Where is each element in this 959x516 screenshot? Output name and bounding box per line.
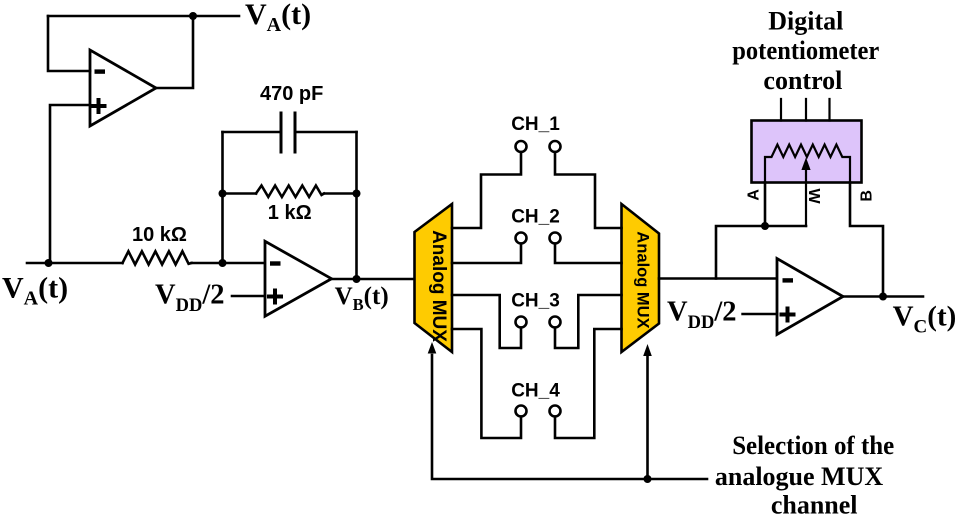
wire CH_2 right bbox=[555, 244, 622, 264]
wire U2 output bbox=[332, 278, 415, 281]
wire pot B terminal bbox=[850, 183, 883, 297]
wire CH_4 right bbox=[555, 329, 622, 438]
wire U1 output bbox=[156, 16, 193, 88]
U3 minus symbol bbox=[783, 278, 794, 282]
node feedback left bbox=[219, 190, 227, 198]
svg-text:analogue MUX: analogue MUX bbox=[715, 462, 884, 491]
svg-text:B: B bbox=[858, 190, 875, 202]
switch CH_3 contacts bbox=[516, 317, 527, 328]
node selection junction bbox=[644, 475, 652, 483]
svg-text:Analog MUX: Analog MUX bbox=[634, 231, 652, 328]
wire U1 feedback top bbox=[48, 15, 239, 18]
wire VA input bbox=[27, 262, 123, 265]
svg-text:potentiometer: potentiometer bbox=[732, 36, 879, 65]
node pot A junction bbox=[761, 222, 769, 230]
wire CH_2 left bbox=[452, 244, 521, 264]
pot wiper arrow bbox=[805, 169, 807, 226]
wire feedback right vertical bbox=[355, 132, 358, 279]
wire feedback left vertical bbox=[221, 132, 224, 263]
svg-text:CH_2: CH_2 bbox=[511, 207, 560, 228]
wire CH_1 left bbox=[452, 152, 521, 228]
U2 plus symbol bbox=[269, 291, 281, 303]
capacitor C1 470pF bbox=[223, 131, 357, 134]
switch CH_1 contacts bbox=[516, 141, 527, 152]
node R1/feedback junction bbox=[219, 259, 227, 267]
wire CH_1 right bbox=[555, 152, 622, 228]
node U3 output junction bbox=[879, 293, 887, 301]
wire CH_4 left bbox=[452, 329, 521, 438]
svg-text:1 kΩ: 1 kΩ bbox=[268, 202, 312, 224]
svg-text:CH_3: CH_3 bbox=[511, 291, 560, 312]
svg-text:Analog MUX: Analog MUX bbox=[428, 230, 449, 342]
op-amp U3 (output) bbox=[777, 259, 843, 335]
wire pot A terminal bbox=[764, 183, 767, 227]
wire R1 to U2 bbox=[192, 262, 266, 265]
U3 plus symbol bbox=[782, 309, 794, 321]
op-amp U2 bbox=[265, 241, 332, 316]
U2 minus symbol bbox=[270, 261, 281, 265]
wire CH_3 left bbox=[452, 295, 521, 348]
node feedback right bbox=[353, 190, 361, 198]
pot control stubs bbox=[781, 99, 830, 121]
wire U1 inverting input bbox=[48, 16, 90, 71]
node A: VA input junction bbox=[45, 259, 53, 267]
wire CH_3 right bbox=[555, 295, 622, 348]
U1 minus input symbol bbox=[95, 69, 106, 73]
svg-text:W: W bbox=[805, 188, 822, 204]
svg-text:Digital: Digital bbox=[768, 7, 843, 36]
svg-text:CH_4: CH_4 bbox=[511, 381, 560, 402]
resistor R2 1k zigzag bbox=[223, 192, 257, 195]
switch CH_4 contacts bbox=[516, 406, 527, 417]
wire U1 non-inverting input bbox=[50, 105, 90, 263]
svg-text:A: A bbox=[745, 189, 762, 201]
arrowhead right MUX select bbox=[643, 344, 652, 356]
U1 plus input symbol bbox=[93, 100, 105, 112]
resistor R1 10k zigzag bbox=[123, 251, 192, 264]
analog MUX left bbox=[415, 204, 453, 352]
svg-text:control: control bbox=[763, 66, 842, 95]
svg-text:10 kΩ: 10 kΩ bbox=[132, 224, 187, 246]
wire VDD/2 to U3 plus bbox=[743, 313, 777, 316]
op-amp U1 (voltage follower, top-left) bbox=[90, 50, 156, 126]
analog MUX right bbox=[622, 204, 660, 352]
svg-text:Selection of the: Selection of the bbox=[732, 431, 894, 460]
wire branch to potentiometer bbox=[716, 226, 806, 279]
svg-text:channel: channel bbox=[771, 490, 858, 516]
svg-text:470 pF: 470 pF bbox=[260, 83, 323, 105]
svg-text:CH_1: CH_1 bbox=[511, 114, 560, 135]
wire MUX right output bbox=[659, 277, 777, 280]
node U1 output junction bbox=[189, 12, 197, 20]
node U2 output junction bbox=[353, 275, 361, 283]
wire VDD/2 to U2 plus bbox=[232, 295, 265, 298]
switch CH_2 contacts bbox=[516, 233, 527, 244]
pot resistor zigzag bbox=[765, 145, 850, 183]
wire U3 output bbox=[843, 295, 923, 298]
digital potentiometer box bbox=[752, 121, 862, 183]
arrowhead left MUX select bbox=[428, 342, 437, 354]
selection control wire bbox=[432, 355, 707, 479]
